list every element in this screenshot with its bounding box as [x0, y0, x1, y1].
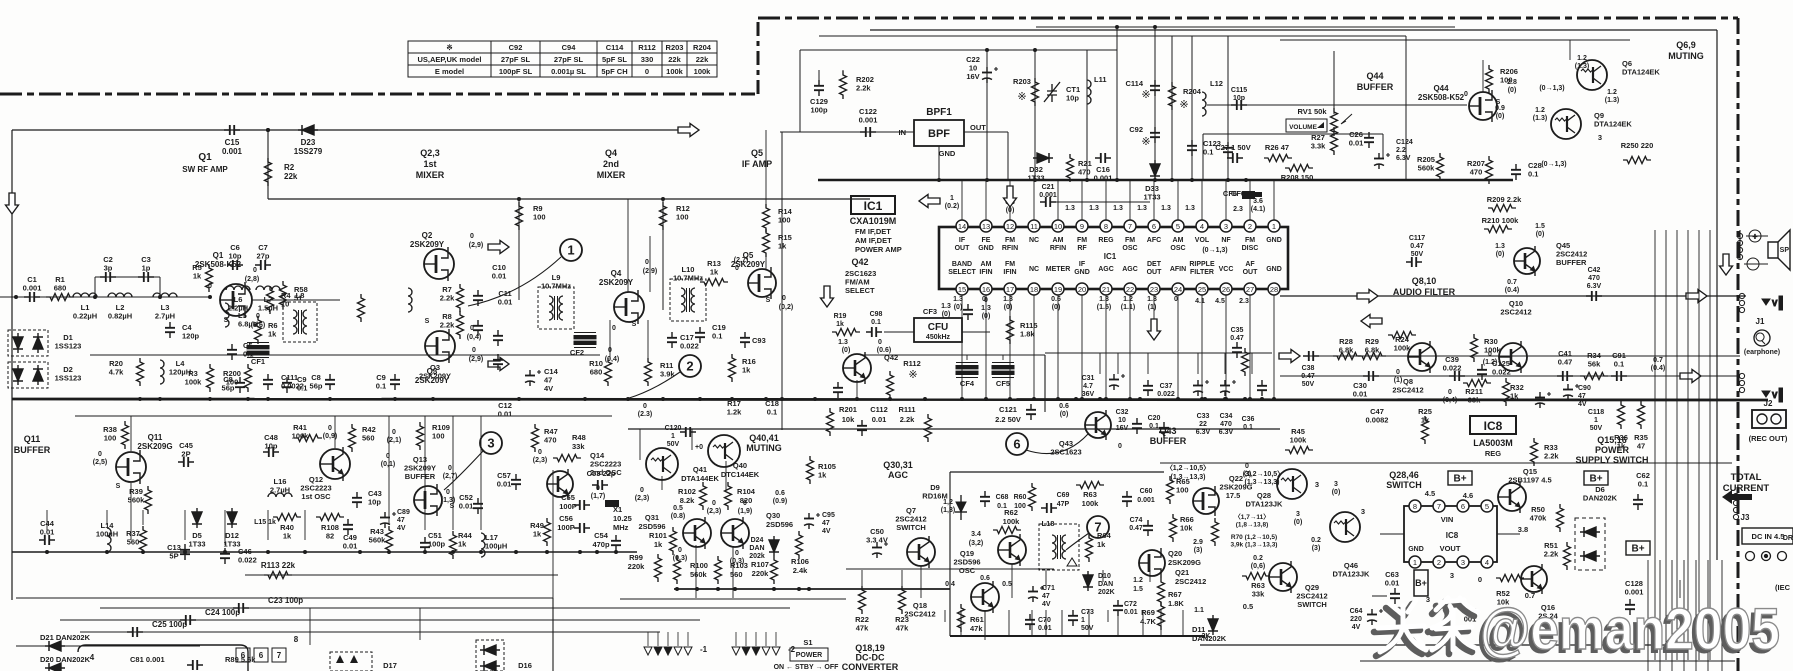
signal arrow: [1686, 290, 1707, 303]
svg-text:24: 24: [1174, 285, 1182, 294]
crystal X1: [605, 500, 619, 507]
junction: [138, 397, 142, 401]
wire pin stub up: [961, 180, 963, 220]
svg-text:C124: C124: [1396, 139, 1413, 146]
svg-text:14: 14: [958, 222, 966, 231]
svg-text:R111: R111: [898, 405, 915, 414]
resistor R101: [670, 527, 677, 555]
svg-text:0.0082: 0.0082: [1366, 416, 1389, 425]
svg-text:1.3: 1.3: [1185, 205, 1195, 212]
junction: [1190, 178, 1194, 182]
svg-text:Q41: Q41: [693, 465, 707, 474]
wire agc box left: [949, 472, 951, 636]
svg-text:8.2k: 8.2k: [680, 496, 695, 505]
svg-text:6.3V: 6.3V: [1396, 155, 1411, 162]
svg-text:Q30: Q30: [766, 511, 780, 520]
wire pin stub up: [1081, 180, 1083, 220]
svg-text:8: 8: [294, 635, 299, 644]
svg-text:AM: AM: [1173, 237, 1184, 244]
svg-text:〈1,2→10,5〉: 〈1,2→10,5〉: [1166, 464, 1210, 472]
svg-text:GND: GND: [1408, 546, 1424, 553]
pin box 6b: [254, 648, 268, 662]
wire v: [130, 483, 132, 540]
svg-text:0.5: 0.5: [673, 505, 683, 512]
wire v: [649, 236, 651, 292]
ceramic filter CF4: [956, 363, 978, 378]
wire stub: [1160, 610, 1162, 636]
svg-text:56p: 56p: [310, 382, 323, 391]
wire: [1380, 533, 1404, 535]
svg-text:VIN: VIN: [1441, 515, 1454, 524]
resistor R44: [450, 531, 457, 559]
resistor R12: [660, 202, 667, 230]
svg-text:4: 4: [1485, 558, 1489, 567]
IC IC1 label box: [851, 196, 895, 214]
junction: [479, 550, 483, 554]
diode D32: [1033, 153, 1053, 163]
wire cap stub: [1197, 353, 1199, 374]
junction: [1170, 178, 1174, 182]
pin 2: [1244, 220, 1256, 232]
transistor Q41: [646, 448, 678, 480]
arrow total current: [1722, 490, 1752, 504]
svg-text:BPF: BPF: [928, 128, 950, 140]
svg-text:S: S: [632, 321, 637, 328]
inductor L5: [225, 303, 229, 327]
junction: [208, 397, 212, 401]
svg-text:4V: 4V: [1042, 601, 1051, 608]
svg-text:1k: 1k: [1510, 392, 1519, 401]
svg-text:10p: 10p: [1233, 95, 1245, 102]
junction: [960, 397, 964, 401]
wire: [1482, 60, 1484, 92]
resistor R9: [516, 202, 523, 230]
svg-text:(0.6): (0.6): [877, 347, 891, 354]
svg-text:3: 3: [1426, 595, 1430, 604]
signal arrow: [488, 358, 509, 371]
capacitor C15: [224, 125, 240, 135]
junction: [1080, 397, 1084, 401]
junction: [730, 397, 734, 401]
svg-text:-1: -1: [700, 645, 708, 654]
pin 7: [1433, 500, 1445, 512]
svg-text:27pF SL: 27pF SL: [554, 55, 584, 64]
svg-text:FM: FM: [1005, 237, 1015, 244]
junction: [807, 587, 811, 591]
svg-text:5: 5: [1176, 222, 1180, 231]
svg-text:0: 0: [1448, 389, 1452, 396]
svg-text:CF6: CF6: [1223, 189, 1237, 198]
svg-text:DTA123JK: DTA123JK: [1333, 570, 1371, 579]
svg-text:470: 470: [1078, 168, 1091, 177]
resistor R64: [1086, 534, 1093, 562]
svg-text:10p: 10p: [368, 498, 381, 507]
svg-text:17.5: 17.5: [1226, 491, 1241, 500]
svg-text:0.01: 0.01: [1124, 609, 1138, 616]
svg-text:6: 6: [1152, 222, 1156, 231]
svg-text:Q40: Q40: [733, 461, 747, 470]
transformer L9: [538, 287, 574, 329]
sub board box bottom-left: [78, 645, 248, 671]
junction: [1115, 178, 1119, 182]
svg-text:C27 1 50V: C27 1 50V: [1215, 143, 1250, 152]
svg-text:470: 470: [544, 436, 557, 445]
svg-text:C31: C31: [1082, 375, 1095, 382]
resistor R42: [349, 424, 356, 452]
wire v: [901, 570, 903, 590]
svg-text:FM: FM: [1125, 237, 1135, 244]
capacitor C117: [1406, 257, 1422, 267]
capacitor C54: [611, 535, 621, 551]
svg-text:(2,9): (2,9): [469, 356, 483, 363]
svg-text:0: 0: [328, 425, 332, 432]
wire mixer supply: [268, 198, 870, 200]
svg-text:AM: AM: [1053, 237, 1064, 244]
wire pin stub down: [1009, 295, 1011, 399]
svg-text:※: ※: [1179, 99, 1188, 111]
pin 19: [1052, 283, 1064, 295]
wire muting bottom rail: [674, 588, 950, 590]
resistor R105: [807, 456, 814, 484]
wire: [159, 277, 161, 297]
svg-text:(2,9): (2,9): [469, 242, 483, 249]
wire v: [106, 510, 108, 525]
svg-text:1.5µH: 1.5µH: [258, 304, 278, 313]
svg-text:0: 0: [596, 485, 600, 492]
svg-text:0.5: 0.5: [1243, 602, 1253, 611]
capacitor C44: [39, 535, 55, 545]
capacitor C120: [680, 427, 696, 437]
svg-text:IC8: IC8: [1446, 531, 1459, 540]
junction: [985, 178, 989, 182]
svg-text:2SC1623: 2SC1623: [1050, 448, 1081, 457]
capacitor Cf: [963, 304, 973, 320]
svg-text:SELECT: SELECT: [845, 286, 875, 295]
svg-text:1,2: 1,2: [943, 499, 953, 506]
diode D2a: [13, 365, 23, 385]
capacitor C73: [1068, 610, 1078, 626]
resistor R6b: [358, 294, 365, 322]
connector triangles -2: [732, 647, 740, 655]
svg-text:470: 470: [1588, 275, 1600, 282]
junction: [1226, 178, 1230, 182]
dash-dot boundary top: [758, 17, 1738, 20]
resistor R24: [1388, 332, 1416, 339]
svg-text:560: 560: [362, 434, 375, 443]
capacitor C93: [740, 332, 750, 348]
wire r2 branch: [267, 130, 269, 199]
svg-text:100: 100: [1176, 486, 1189, 495]
svg-text:Q4: Q4: [611, 269, 622, 278]
resistor R69: [1158, 602, 1165, 630]
svg-text:C21: C21: [1042, 184, 1055, 191]
svg-text:0: 0: [735, 265, 739, 272]
svg-text:C89: C89: [397, 509, 410, 516]
capacitor C46: [220, 548, 230, 564]
capacitor Cq: [833, 382, 843, 398]
svg-text:C24 100p: C24 100p: [205, 608, 240, 617]
svg-text:23: 23: [1150, 285, 1158, 294]
dash-dot boundary top-left: [0, 93, 755, 96]
svg-text:C114: C114: [1125, 79, 1143, 88]
wire bpf in: [780, 131, 914, 133]
wire pin stub down: [1105, 295, 1107, 399]
capacitor C68: [980, 491, 990, 507]
svg-text:RIPPLE: RIPPLE: [1189, 261, 1215, 268]
svg-text:7: 7: [1128, 222, 1132, 231]
svg-text:27: 27: [1246, 285, 1254, 294]
junction: [772, 587, 776, 591]
svg-text:(1.1): (1.1): [1121, 304, 1135, 311]
svg-text:2SK209G: 2SK209G: [137, 442, 172, 451]
svg-text:SUPPLY SWITCH: SUPPLY SWITCH: [1575, 455, 1648, 465]
svg-text:OUT: OUT: [1147, 269, 1163, 276]
capacitor C89: [380, 512, 396, 528]
svg-text:20: 20: [1078, 285, 1086, 294]
junction: [1033, 48, 1037, 52]
junction: [1200, 397, 1204, 401]
capacitor C23: [233, 603, 249, 613]
pin 13: [980, 220, 992, 232]
svg-text:(0,3): (0,3): [730, 558, 744, 565]
inductor L11: [1087, 80, 1091, 104]
svg-text:6.8k: 6.8k: [1339, 346, 1354, 355]
junction: [937, 178, 941, 182]
pin 21: [1100, 283, 1112, 295]
svg-text:(0,3): (0,3): [673, 555, 687, 562]
svg-text:47k: 47k: [856, 624, 869, 633]
wire: [657, 632, 659, 646]
svg-text:10.7MHz: 10.7MHz: [673, 274, 703, 283]
svg-text:0.2: 0.2: [1253, 555, 1263, 562]
junction: [93, 295, 97, 299]
wire pin stub up: [1057, 180, 1059, 220]
svg-text:1k: 1k: [1097, 540, 1106, 549]
svg-text:25: 25: [1198, 285, 1206, 294]
wire pin stub up: [1249, 180, 1251, 220]
junction: [764, 397, 768, 401]
inductor Lx: [408, 288, 412, 312]
svg-text:0.001: 0.001: [222, 147, 243, 156]
wire: [755, 632, 757, 646]
svg-text:2SK508-K52: 2SK508-K52: [195, 260, 242, 269]
wire cap feeds: [1045, 352, 1272, 354]
svg-text:33k: 33k: [1252, 590, 1265, 599]
wire: [735, 632, 737, 646]
svg-text:1: 1: [567, 243, 574, 258]
svg-text:0: 0: [392, 429, 396, 436]
pin 12: [1004, 220, 1016, 232]
svg-text:0.1: 0.1: [1203, 148, 1213, 157]
svg-text:R204: R204: [693, 43, 712, 52]
svg-text:3p: 3p: [104, 264, 113, 273]
wire v: [142, 510, 144, 525]
diode D5: [192, 508, 202, 528]
junction: [595, 550, 599, 554]
svg-text:33k: 33k: [572, 442, 585, 451]
svg-text:0: 0: [1174, 296, 1178, 303]
diode pack D6: [1575, 518, 1605, 570]
svg-text:4.5: 4.5: [1425, 489, 1435, 498]
wire stub: [1008, 610, 1010, 636]
svg-text:RV1 50k: RV1 50k: [1297, 107, 1327, 116]
svg-text:82: 82: [326, 532, 334, 541]
resistor R104: [725, 482, 732, 510]
resistor R103: [715, 556, 722, 584]
junction: [141, 550, 145, 554]
svg-text:50V: 50V: [1081, 625, 1094, 632]
svg-text:1.2: 1.2: [1123, 296, 1133, 303]
svg-text:C25 100p: C25 100p: [152, 620, 187, 629]
svg-text:2SK508-K52: 2SK508-K52: [1418, 93, 1465, 102]
svg-text:B+: B+: [1631, 544, 1644, 555]
junction: [423, 550, 427, 554]
svg-text:C71: C71: [1042, 585, 1055, 592]
resistor R48: [553, 455, 581, 462]
inductor L16: [268, 493, 292, 497]
svg-text:100p: 100p: [428, 540, 446, 549]
svg-text:※: ※: [908, 369, 917, 381]
svg-text:100k: 100k: [1003, 517, 1021, 526]
wire cap stub: [1147, 353, 1149, 374]
svg-text:1.5: 1.5: [1133, 586, 1143, 593]
svg-text:2.2k: 2.2k: [856, 84, 871, 93]
svg-text:R63: R63: [1083, 490, 1097, 499]
svg-text:R60: R60: [1014, 494, 1027, 501]
svg-text:47: 47: [1578, 393, 1586, 400]
svg-text:R107: R107: [751, 560, 769, 569]
svg-text:680: 680: [590, 368, 603, 377]
svg-text:R19: R19: [834, 313, 847, 320]
resistor R4: [267, 286, 274, 314]
svg-text:(0.4): (0.4): [1505, 287, 1519, 294]
wire trunk v0: [1654, 230, 1656, 660]
capacitor C111: [263, 374, 273, 390]
svg-text:(0): (0): [842, 347, 851, 354]
junction: [393, 397, 397, 401]
svg-text:470p: 470p: [592, 540, 610, 549]
svg-text:(0): (0): [1536, 231, 1545, 238]
pin 18: [1028, 283, 1040, 295]
svg-text:18: 18: [1030, 285, 1038, 294]
svg-text:R100: R100: [690, 561, 708, 570]
svg-text:0: 0: [98, 451, 102, 458]
resistor R37: [140, 526, 147, 554]
wire cfu out: [962, 331, 990, 333]
capacitor C64: [1367, 609, 1383, 625]
svg-text:6.3V: 6.3V: [1587, 283, 1602, 290]
svg-text:C23 100p: C23 100p: [268, 596, 303, 605]
resistor R39: [145, 486, 152, 514]
resistor R33: [1531, 438, 1538, 466]
svg-text:100: 100: [226, 378, 239, 387]
wire v: [732, 547, 734, 598]
svg-text:R201: R201: [839, 405, 857, 414]
junction: [813, 397, 817, 401]
svg-text:(1,7): (1,7): [591, 493, 605, 500]
resistor R66: [1170, 514, 1177, 542]
svg-text:D21 DAN202K: D21 DAN202K: [40, 633, 91, 642]
svg-text:C121: C121: [999, 405, 1017, 414]
svg-text:OSC: OSC: [1170, 245, 1185, 252]
capacitor C129: [814, 80, 824, 96]
svg-text:3: 3: [1361, 507, 1365, 516]
connector dots: [1737, 233, 1742, 238]
trimmer CT1: [1044, 82, 1060, 102]
svg-text:27p: 27p: [257, 252, 270, 261]
svg-text:C35: C35: [1231, 327, 1244, 334]
svg-text:1.2k: 1.2k: [727, 408, 742, 417]
capacitor C125: [1477, 364, 1487, 380]
svg-text:D10: D10: [1098, 573, 1111, 580]
svg-text:0.6: 0.6: [1051, 296, 1061, 303]
capacitor C3: [138, 272, 154, 282]
svg-text:S: S: [116, 483, 121, 490]
wire trunk b2: [1671, 560, 1673, 671]
svg-text:DAN: DAN: [1098, 581, 1113, 588]
junction: [661, 397, 665, 401]
wire v: [695, 545, 697, 598]
svg-text:2.2: 2.2: [1396, 147, 1406, 154]
resistor R62: [993, 527, 1021, 534]
wire pin stub up: [1273, 180, 1275, 220]
svg-text:IC1: IC1: [864, 199, 883, 213]
resistor R205: [1437, 153, 1444, 181]
wire pin stub up: [985, 180, 987, 220]
node 6: [1006, 433, 1028, 455]
signal arrow: [919, 195, 940, 208]
transistor Q30: [721, 517, 749, 549]
wire input stub: [0, 296, 16, 298]
svg-text:NC: NC: [1029, 237, 1039, 244]
capacitor C90: [1563, 384, 1579, 400]
capacitor C43: [352, 492, 362, 508]
pin 4: [1196, 220, 1208, 232]
wire: [1280, 375, 1290, 377]
svg-text:R203: R203: [666, 43, 684, 52]
svg-text:0.1: 0.1: [243, 350, 253, 359]
pin box 7: [272, 648, 286, 662]
svg-text:C112: C112: [870, 405, 888, 414]
svg-text:15: 15: [958, 285, 966, 294]
svg-text:C115: C115: [1231, 87, 1247, 94]
svg-text:DET: DET: [1147, 261, 1162, 268]
junction: [888, 397, 892, 401]
junction: [578, 550, 582, 554]
wire trunk b4: [1695, 560, 1697, 671]
capacitor C52: [473, 498, 483, 514]
resistor R14: [763, 204, 770, 232]
svg-text:D20 DAN202K: D20 DAN202K: [40, 655, 91, 664]
resistor R28: [1333, 353, 1361, 360]
wire: [647, 632, 649, 646]
svg-text:※: ※: [1017, 91, 1026, 103]
svg-text:26: 26: [1222, 285, 1230, 294]
wire pin stub down: [1153, 295, 1155, 325]
svg-text:2.2 50V: 2.2 50V: [995, 415, 1021, 424]
resistor R106: [796, 531, 803, 559]
wire pin stub up: [1129, 180, 1131, 220]
svg-text:2SD596: 2SD596: [638, 522, 665, 531]
junction: [1032, 397, 1036, 401]
wire pin stub down: [1081, 295, 1083, 399]
svg-text:0: 0: [253, 267, 257, 274]
resistor R35: [1638, 401, 1645, 429]
svg-text:C64: C64: [1350, 608, 1363, 615]
capacitor Cx3: [1257, 380, 1267, 396]
node 1: [560, 239, 582, 261]
svg-text:2nd: 2nd: [603, 159, 619, 169]
